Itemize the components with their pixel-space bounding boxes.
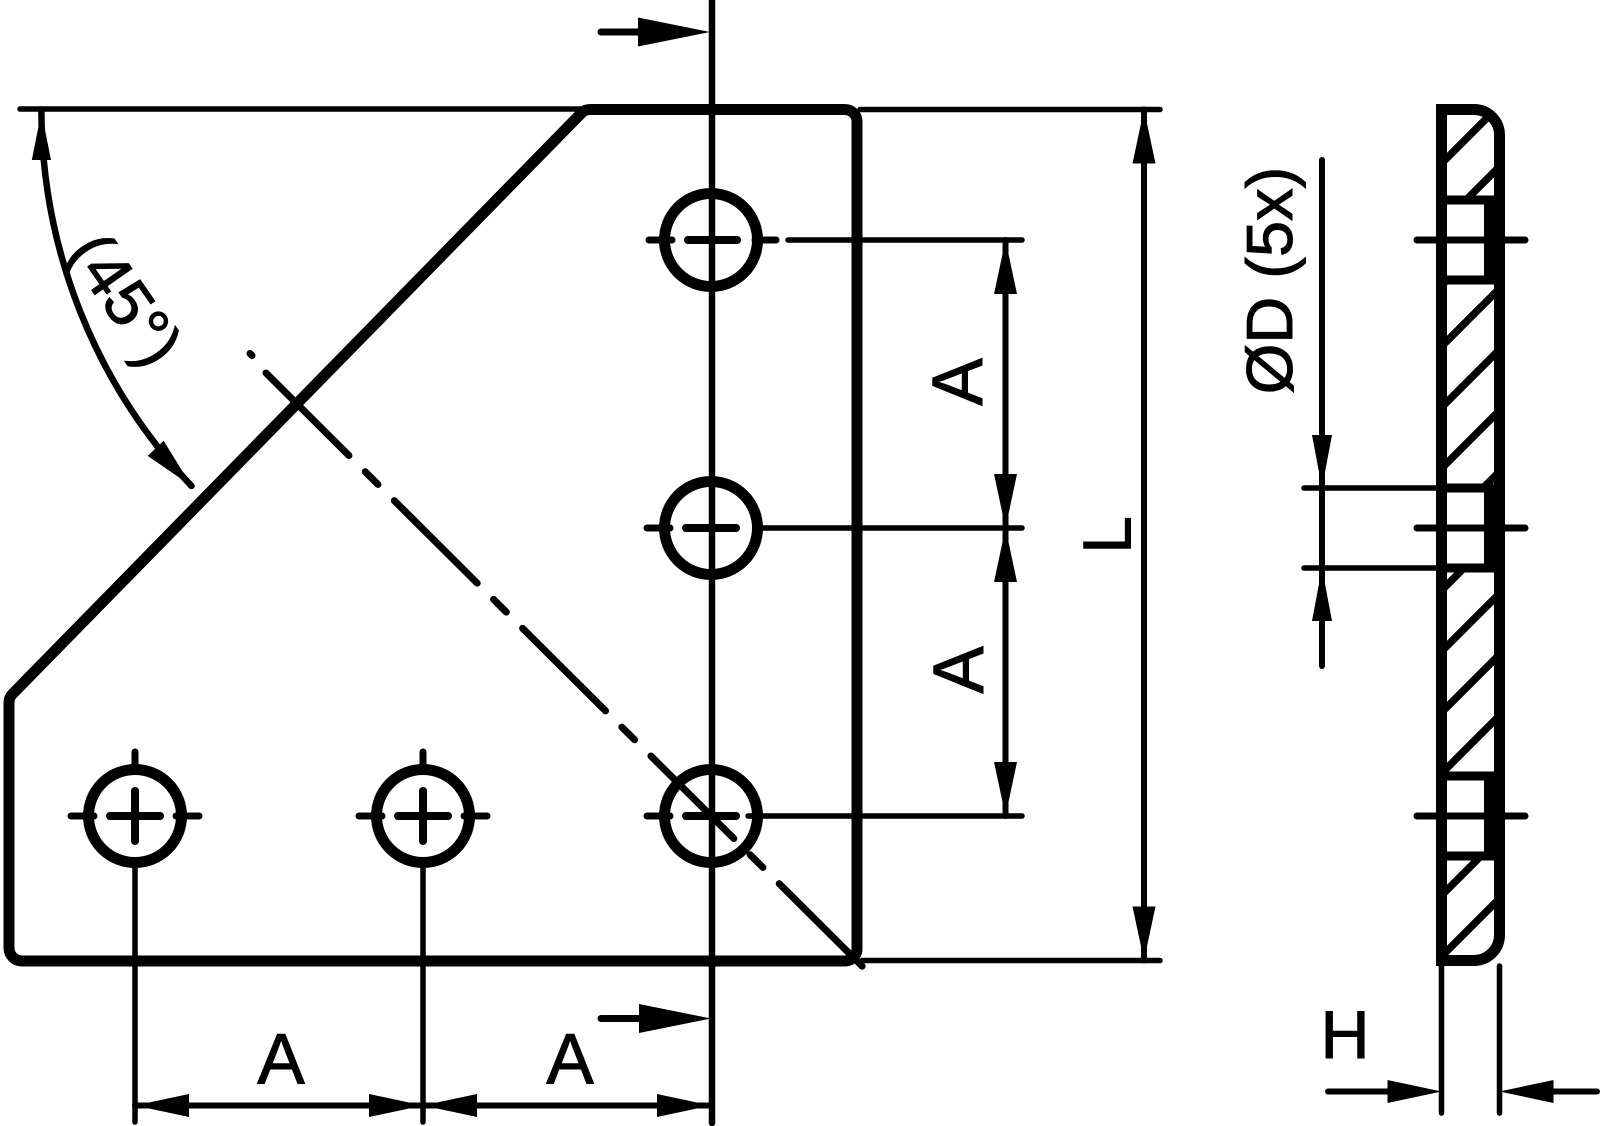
side hole S2 (528) (1442, 484, 1500, 493)
svg-text:L: L (1070, 516, 1146, 554)
centerline: diagonal dash-dot symmetry axis (250, 354, 252, 356)
side view hatch zones (1447, 115, 1494, 196)
hole front H4 (711,528) (665, 482, 758, 575)
section line A-A vertical (709, 0, 716, 1123)
svg-text:ØD (5x): ØD (5x) (1233, 167, 1306, 395)
svg-text:A: A (919, 358, 998, 406)
arc arrowhead bottom (148, 441, 200, 494)
arc arrowhead top (32, 112, 51, 160)
hole front H2 (423,816) (377, 770, 470, 863)
side hole S3 (816) (1442, 772, 1500, 781)
section arrow bottom (601, 1015, 642, 1022)
section arrow top (601, 29, 642, 36)
svg-text:A: A (546, 1021, 594, 1100)
plate outline (9, 109, 857, 961)
hole front H3 (711,816) (665, 770, 758, 863)
svg-text:H: H (1320, 997, 1369, 1073)
hole front H1 (135,816) (89, 770, 182, 863)
dimension A bottom (135-423-711) (135, 1103, 711, 1109)
dimension A vertical right (240-528) (1003, 240, 1009, 816)
svg-text:A: A (257, 1021, 305, 1100)
side hole S1 (240) (1442, 196, 1500, 205)
hole front H5 (711,240) (665, 194, 758, 287)
side view outline (1442, 110, 1500, 961)
angle arc (45°) (41, 110, 191, 487)
svg-text:A: A (920, 646, 999, 694)
dimension L (860, 107, 1160, 113)
dimension H (1439, 966, 1445, 1113)
dimension OD (5x) (1304, 485, 1443, 491)
wire: 45-degree angle extension line (top) (20, 106, 588, 112)
